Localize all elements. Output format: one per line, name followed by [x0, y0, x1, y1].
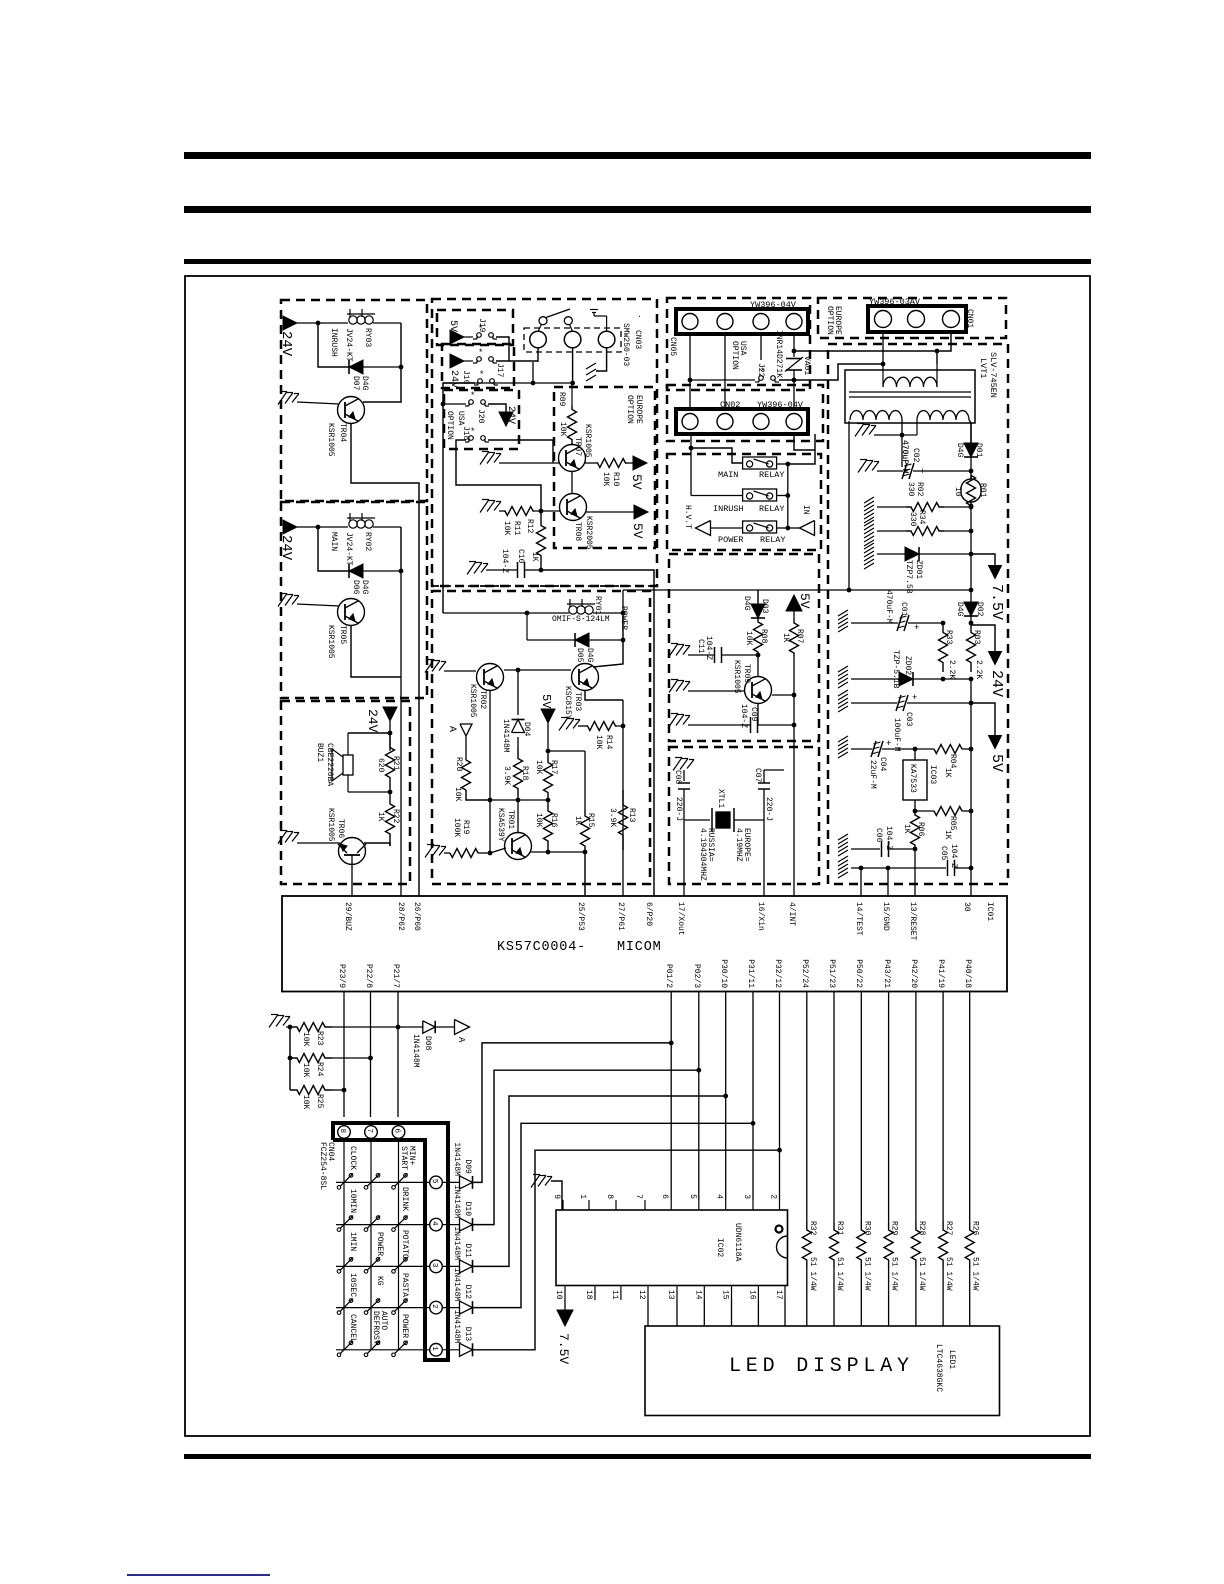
- wire to pin 13/RESET: [914, 849, 916, 896]
- svg-text:5V: 5V: [629, 474, 644, 490]
- wire collector: [363, 367, 401, 402]
- svg-text:R11: R11: [512, 521, 521, 536]
- wire C08 rail: [683, 770, 685, 781]
- svg-text:D13: D13: [463, 1327, 472, 1342]
- svg-text:R04: R04: [948, 754, 957, 769]
- wire R31 top: [833, 992, 835, 1222]
- svg-text:R05: R05: [948, 816, 957, 831]
- svg-text:J20: J20: [476, 409, 485, 424]
- svg-text:2: 2: [430, 1304, 438, 1309]
- svg-text:POWER: POWER: [375, 1232, 384, 1256]
- svg-text:1K: 1K: [943, 830, 952, 840]
- wire pin17 to LED: [784, 1300, 786, 1326]
- node R17 bottom: [546, 798, 551, 803]
- svg-text:51 1/4W: 51 1/4W: [890, 1257, 899, 1291]
- resistor R27: [939, 1222, 948, 1268]
- node TR08 base: [539, 509, 544, 514]
- wire P32/12 column: [779, 992, 781, 1200]
- wire C11 to base node: [722, 654, 758, 656]
- svg-text:*: *: [478, 348, 483, 358]
- svg-text:P23/9: P23/9: [337, 964, 346, 988]
- svg-text:D4G: D4G: [955, 443, 964, 458]
- wire TR01 out: [530, 851, 585, 853]
- wire option bus CN05: [690, 379, 755, 381]
- svg-text:10MIN: 10MIN: [348, 1189, 357, 1213]
- svg-text:RY01: RY01: [593, 596, 602, 615]
- IC02 bottom pin 10: [564, 1286, 566, 1301]
- key switch: [392, 1311, 396, 1315]
- wire pin12 to LED: [647, 1300, 649, 1326]
- svg-text:24V: 24V: [278, 331, 294, 357]
- CN05 pin 1: [682, 314, 698, 330]
- svg-text:SLV-745EN: SLV-745EN: [988, 352, 998, 398]
- svg-text:P02/3: P02/3: [692, 964, 701, 988]
- svg-text:R07: R07: [795, 629, 804, 644]
- dashed box crystal area: [669, 747, 819, 884]
- wire INRUSH relay out: [777, 495, 788, 497]
- dashed box europe option CN01: [818, 298, 1006, 338]
- svg-text:LED DISPLAY: LED DISPLAY: [729, 1355, 914, 1378]
- svg-text:10K: 10K: [502, 521, 511, 536]
- diode D08: [423, 1021, 435, 1033]
- IC02 notch: [777, 1236, 788, 1258]
- wire ZD02 row: [838, 666, 848, 672]
- resistor R31: [830, 1222, 839, 1268]
- ground (TR09): [671, 679, 678, 681]
- svg-text:D02: D02: [975, 602, 984, 617]
- svg-text:16/Xin: 16/Xin: [756, 902, 765, 931]
- wire R32 top: [806, 992, 808, 1222]
- IC02 bottom pin 18: [594, 1286, 596, 1301]
- wire diode to collector node: [363, 366, 401, 368]
- keypad column 8: [343, 1139, 345, 1350]
- wire MAIN out up: [788, 434, 815, 464]
- title rule 2: [184, 206, 1091, 213]
- wire D13 staircase: [473, 1150, 780, 1350]
- svg-text:IC01: IC01: [985, 902, 994, 921]
- svg-text:LVT1: LVT1: [978, 358, 988, 378]
- svg-text:P43/21: P43/21: [882, 959, 891, 988]
- ground (TR07 base): [482, 451, 489, 453]
- svg-text:P52/24: P52/24: [800, 959, 809, 988]
- svg-text:TR03: TR03: [573, 692, 582, 711]
- svg-text:30: 30: [962, 902, 971, 912]
- svg-text:51 1/4W: 51 1/4W: [862, 1257, 871, 1291]
- jumper J17: [473, 362, 477, 364]
- wire R27 to LED: [942, 1268, 944, 1326]
- wire mains to primary right: [794, 350, 937, 352]
- svg-text:C10: C10: [516, 549, 525, 564]
- wire sw b: [570, 324, 573, 331]
- wire C07 top: [764, 769, 784, 771]
- keypad column 6: [398, 1139, 400, 1350]
- transistor TR07: [559, 445, 586, 472]
- svg-text:RELAY: RELAY: [759, 504, 785, 514]
- wire C09 left: [688, 724, 750, 726]
- svg-text:PASTA: PASTA: [400, 1273, 409, 1297]
- wire TR08 out to 5V: [586, 511, 634, 513]
- capacitor C08: [678, 782, 690, 784]
- key switch: [364, 1270, 368, 1274]
- svg-text:24V: 24V: [365, 709, 380, 733]
- wire option bus: [443, 382, 573, 384]
- resistor R22: [386, 792, 395, 846]
- key switch: [337, 1186, 341, 1190]
- diode D05: [575, 633, 589, 647]
- ground (pullups): [271, 1014, 278, 1016]
- resistor R07: [793, 611, 795, 620]
- svg-text:104-Z: 104-Z: [739, 704, 748, 728]
- power arrow 24V (inrush): [283, 316, 297, 330]
- dashed box relay contacts area: [667, 454, 821, 550]
- IC02 bottom pin 15: [731, 1286, 733, 1301]
- svg-text:R19: R19: [461, 820, 470, 835]
- wire C11 left: [688, 654, 714, 656]
- ground (TR06): [280, 830, 287, 832]
- svg-text:BUZ1: BUZ1: [315, 743, 324, 762]
- svg-text:4/INT: 4/INT: [787, 902, 796, 926]
- wire node to TR03: [593, 640, 623, 667]
- resistor R25: [290, 1086, 332, 1095]
- wire TR02 base: [444, 670, 476, 672]
- svg-text:7: 7: [365, 1129, 373, 1134]
- svg-text:KSR1005: KSR1005: [468, 684, 477, 718]
- svg-text:5V: 5V: [797, 593, 812, 609]
- svg-text:24V: 24V: [505, 406, 516, 424]
- title rule 1: [184, 152, 1091, 159]
- wire R30 to LED: [860, 1268, 862, 1326]
- svg-text:5: 5: [688, 1194, 697, 1199]
- svg-text:ZD01: ZD01: [914, 560, 923, 579]
- wire POWER relay out: [777, 527, 788, 529]
- resistor R06: [911, 811, 920, 849]
- svg-text:D10: D10: [463, 1202, 472, 1217]
- wire CN01-1 down: [882, 332, 884, 364]
- svg-text:OPTION: OPTION: [445, 411, 454, 440]
- transistor TR01: [505, 833, 532, 860]
- svg-text:6: 6: [392, 1129, 400, 1134]
- power arrow 5V (supply): [989, 736, 1002, 749]
- svg-text:1N4148M: 1N4148M: [452, 1142, 461, 1176]
- crystal XTL1: [711, 808, 713, 832]
- svg-text:1K: 1K: [573, 816, 582, 826]
- svg-text:17/Xout: 17/Xout: [676, 902, 685, 936]
- capacitor C01: [897, 615, 902, 631]
- node buzzer bottom: [388, 790, 393, 795]
- svg-text:TR02: TR02: [478, 690, 487, 709]
- key switch: [364, 1353, 368, 1357]
- key switch: [364, 1228, 368, 1232]
- wire pullup rail: [289, 1027, 291, 1090]
- resistor R29: [884, 1222, 893, 1268]
- key switch: [364, 1311, 368, 1315]
- wire TR03 emitter: [585, 691, 623, 700]
- connector CN05 body: [676, 309, 808, 334]
- IC02 bottom pin 13: [676, 1286, 678, 1301]
- svg-text:8: 8: [605, 1194, 614, 1199]
- svg-text:51 1/4W: 51 1/4W: [944, 1257, 953, 1291]
- wire P30/10 column: [725, 992, 727, 1200]
- IC02 top pin 9: [562, 1200, 564, 1210]
- svg-text:10K: 10K: [744, 631, 753, 646]
- svg-text:KSR1005: KSR1005: [326, 808, 335, 842]
- IC02 top pin 7: [644, 1200, 646, 1210]
- svg-text:620: 620: [376, 758, 385, 773]
- resistor R02: [906, 503, 944, 512]
- power arrow 5V (TR08): [634, 505, 648, 519]
- jumper J22: [755, 381, 759, 383]
- wire C09 to rail: [758, 724, 794, 726]
- resistor R09: [571, 383, 573, 405]
- svg-text:ZD02: ZD02: [903, 656, 912, 675]
- node 5V to R15: [546, 749, 551, 754]
- svg-text:KSC815Y: KSC815Y: [563, 686, 572, 720]
- wire R19 left: [444, 852, 450, 854]
- capacitor C05: [947, 860, 949, 876]
- svg-text:LED1: LED1: [947, 1350, 956, 1369]
- svg-text:R26: R26: [971, 1221, 980, 1236]
- resistor R24: [290, 1054, 332, 1063]
- dashed box europe option TR07/TR08: [554, 387, 655, 548]
- resistor R28: [911, 1222, 920, 1268]
- wire R30 top: [860, 992, 862, 1222]
- svg-text:OPTION: OPTION: [730, 341, 739, 370]
- svg-text:6/P20: 6/P20: [644, 902, 653, 926]
- svg-text:3.9K: 3.9K: [608, 808, 617, 827]
- svg-text:470uF-M: 470uF-M: [884, 590, 893, 624]
- wire INRUSH relay feed: [691, 495, 743, 497]
- junction D13 to port: [777, 1148, 782, 1153]
- wire P31/11 column: [752, 992, 754, 1200]
- jumper J20: [465, 405, 469, 407]
- LED display module LED1: [645, 1326, 1000, 1416]
- wire TR05 emitter: [351, 626, 401, 677]
- wire to D08: [398, 1026, 423, 1028]
- jumper J19: [473, 338, 477, 340]
- svg-text:POTATO: POTATO: [400, 1230, 409, 1259]
- wire R29 to LED: [888, 1268, 890, 1326]
- wire J20 feed: [441, 402, 446, 407]
- wire R11 left: [499, 510, 504, 512]
- wire 5V to R17: [547, 723, 549, 755]
- wire pin15 to LED: [731, 1300, 733, 1326]
- CN01 pin 2: [908, 311, 925, 328]
- node R12/C10: [539, 568, 544, 573]
- dashed box CN02 connector area: [667, 385, 823, 441]
- svg-text:LTC4638GKC: LTC4638GKC: [934, 1344, 943, 1392]
- connector CN03 pin 3: [598, 331, 615, 348]
- key switch: [392, 1353, 396, 1357]
- connector CN03 pin 1: [530, 331, 547, 348]
- svg-text:KSA539Y: KSA539Y: [496, 808, 505, 842]
- jumper J16: [474, 384, 478, 386]
- wire CN05-4 node: [792, 349, 797, 354]
- resistor R23: [290, 1023, 332, 1032]
- svg-text:J18: J18: [461, 426, 470, 441]
- svg-text:H.V.T: H.V.T: [683, 505, 692, 529]
- resistor R33: [939, 623, 948, 672]
- wire primary right: [936, 351, 938, 364]
- svg-text:R23: R23: [315, 1031, 324, 1046]
- svg-text:10SEC: 10SEC: [348, 1273, 357, 1297]
- wire P02/3 column: [698, 992, 700, 1200]
- svg-text:10K: 10K: [301, 1063, 310, 1078]
- ground (C08): [675, 757, 682, 759]
- wire center tap: [901, 420, 903, 435]
- wire TR07 emitter to TR08: [571, 471, 573, 494]
- svg-text:JV24-KT: JV24-KT: [344, 532, 353, 566]
- keypad column 7: [370, 1139, 372, 1350]
- svg-text:P51/23: P51/23: [827, 959, 836, 988]
- svg-text:INR14D271K: INR14D271K: [774, 330, 783, 378]
- svg-text:D06: D06: [351, 580, 360, 595]
- dashed box buzzer section: [281, 701, 410, 884]
- svg-text:1N4148M: 1N4148M: [452, 1185, 461, 1219]
- key switch: [337, 1311, 341, 1315]
- svg-text:5V: 5V: [630, 523, 645, 539]
- svg-text:P01/2: P01/2: [664, 964, 673, 988]
- wire A to R20: [465, 736, 467, 760]
- svg-text:10K: 10K: [558, 422, 567, 437]
- svg-text:R03: R03: [972, 630, 981, 645]
- svg-text:INRUSH: INRUSH: [329, 328, 338, 357]
- wire to buzzer: [348, 732, 390, 734]
- svg-text:P32/12: P32/12: [773, 959, 782, 988]
- ground (center tap): [857, 423, 864, 425]
- ground (TR02): [427, 659, 434, 661]
- pin circle 5: [430, 1176, 443, 1189]
- wire D03 top: [757, 590, 759, 604]
- wire coil to node: [400, 323, 402, 367]
- relay contact INRUSH: [743, 489, 777, 501]
- dashed box inrush relay section: [281, 300, 427, 501]
- wire R13 rail: [622, 700, 624, 896]
- IN connector: [788, 527, 800, 529]
- svg-text:C08: C08: [673, 770, 682, 785]
- resistor R16: [544, 800, 553, 852]
- svg-text:START: START: [399, 1146, 408, 1170]
- wire buzzer bottom: [348, 791, 390, 793]
- svg-text:P21/7: P21/7: [391, 964, 400, 988]
- svg-text:D4G: D4G: [585, 648, 594, 663]
- wire CN03-3 to ground: [596, 348, 607, 371]
- svg-text:1MIN: 1MIN: [348, 1232, 357, 1251]
- power arrow 5V (R07): [786, 595, 802, 611]
- wire TR09 left: [688, 690, 745, 692]
- CN02 pin 3: [753, 414, 769, 430]
- svg-text:CN05: CN05: [668, 337, 677, 356]
- svg-text:2.2K: 2.2K: [974, 660, 983, 679]
- wire R26 top: [969, 992, 971, 1222]
- svg-text:3: 3: [742, 1194, 751, 1199]
- ground (TR08 base side): [482, 499, 489, 501]
- svg-text:R25: R25: [315, 1094, 324, 1109]
- jumper J18: [465, 441, 469, 443]
- power arrow 7.5V: [989, 566, 1002, 579]
- power arrow 5V (R10): [633, 456, 647, 470]
- wire TR06 left: [297, 842, 340, 844]
- transistor TR02: [477, 664, 504, 691]
- svg-text:24V: 24V: [278, 535, 294, 561]
- capacitor C07: [758, 782, 770, 784]
- svg-text:28/P62: 28/P62: [396, 902, 405, 931]
- schematic border frame: [185, 276, 1090, 1436]
- svg-text:10K: 10K: [453, 787, 462, 802]
- bus wire 7.5V: [758, 589, 971, 591]
- dashed box power supply area: [828, 344, 1008, 884]
- svg-text:JV24-KT: JV24-KT: [344, 328, 353, 362]
- svg-text:1: 1: [578, 1194, 587, 1199]
- buzzer BUZ1: [347, 733, 349, 755]
- svg-text:D04: D04: [522, 722, 531, 737]
- keypad row 4: [336, 1224, 429, 1226]
- svg-text:RY03: RY03: [363, 328, 372, 347]
- CN01 pin 3: [943, 311, 960, 328]
- pin circle 6: [392, 1126, 405, 1139]
- resistor R32: [802, 1222, 811, 1268]
- svg-text:P30/10: P30/10: [719, 959, 728, 988]
- wire CN01-3 down: [937, 332, 951, 351]
- wire R24 to P22: [332, 1057, 371, 1059]
- wire J16 to 24V rail: [443, 383, 475, 613]
- wire R25 to P23: [332, 1089, 344, 1091]
- keypad row 1: [336, 1349, 429, 1351]
- wire CN05-1 down: [689, 334, 691, 409]
- resistor R10: [598, 459, 626, 468]
- switch CN03 lever: [546, 309, 570, 318]
- bottom rule: [184, 1454, 1091, 1459]
- svg-text:IC02: IC02: [715, 1238, 724, 1257]
- svg-text:KG: KG: [375, 1276, 384, 1286]
- ground (R14): [561, 717, 568, 719]
- wire base TR05: [297, 604, 339, 606]
- key switch: [392, 1228, 396, 1232]
- resistor R17: [544, 755, 553, 800]
- svg-text:51 1/4W: 51 1/4W: [971, 1257, 980, 1291]
- transistor TR05: [338, 599, 365, 626]
- rail to bus: [970, 506, 972, 590]
- svg-text:1N4148M: 1N4148M: [452, 1226, 461, 1260]
- svg-text:KSR2005: KSR2005: [584, 516, 593, 550]
- svg-text:J19: J19: [477, 318, 486, 333]
- wire to pin 14/TEST: [860, 868, 862, 896]
- transformer core: [849, 391, 971, 393]
- power arrow 24V (buzzer): [383, 707, 397, 721]
- wire R02 row: [864, 497, 874, 503]
- svg-text:R02: R02: [915, 482, 924, 497]
- diode D12: [460, 1301, 473, 1314]
- wire R19 to rail: [478, 852, 490, 854]
- diode D04: [517, 670, 519, 715]
- svg-text:R09: R09: [557, 392, 566, 407]
- dashed box jumper/option section: [432, 299, 657, 586]
- svg-text:9: 9: [552, 1194, 561, 1199]
- svg-text:D12: D12: [463, 1285, 472, 1300]
- key switch: [337, 1353, 341, 1357]
- wire P21 column: [397, 992, 399, 1117]
- wire P23 column: [343, 992, 345, 1117]
- svg-text:*: *: [470, 391, 475, 401]
- IC02 bottom pin 12: [647, 1286, 649, 1301]
- svg-text:J17: J17: [495, 363, 504, 378]
- diode D06: [349, 564, 363, 578]
- svg-text:KSR1005: KSR1005: [583, 424, 592, 458]
- wire R28 to LED: [915, 1268, 917, 1326]
- junction D11 to port: [723, 1094, 728, 1099]
- svg-text:KSR1005: KSR1005: [326, 423, 335, 457]
- power arrow 24V (main): [283, 520, 297, 534]
- svg-text:C06: C06: [874, 828, 883, 843]
